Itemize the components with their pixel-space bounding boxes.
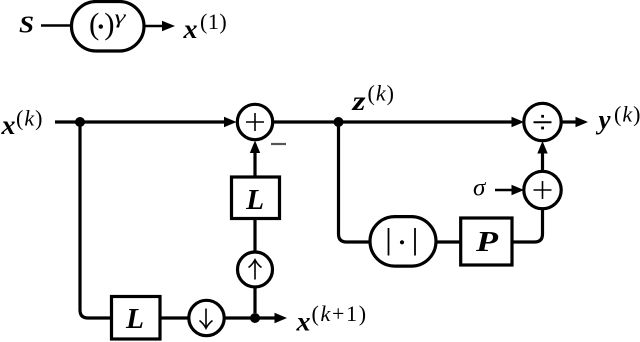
svg-text:): ) xyxy=(104,6,114,41)
svg-text:(: ( xyxy=(89,6,99,41)
svg-text:P: P xyxy=(475,227,499,258)
svg-text:(k): (k) xyxy=(16,106,43,131)
svg-text:y: y xyxy=(596,105,612,135)
svg-text:x: x xyxy=(0,110,15,140)
svg-text:σ: σ xyxy=(473,175,487,202)
svg-text:(k): (k) xyxy=(614,102,640,127)
svg-text:x: x xyxy=(182,14,197,44)
svg-text:(k+1): (k+1) xyxy=(312,301,368,326)
svg-text:S: S xyxy=(19,13,34,39)
svg-text:z: z xyxy=(351,86,366,116)
svg-text:γ: γ xyxy=(115,8,127,29)
svg-text:L: L xyxy=(125,304,144,335)
svg-text:(k): (k) xyxy=(368,81,395,106)
svg-text:x: x xyxy=(295,307,310,337)
svg-text:L: L xyxy=(245,185,264,216)
svg-text:(1): (1) xyxy=(200,9,227,34)
